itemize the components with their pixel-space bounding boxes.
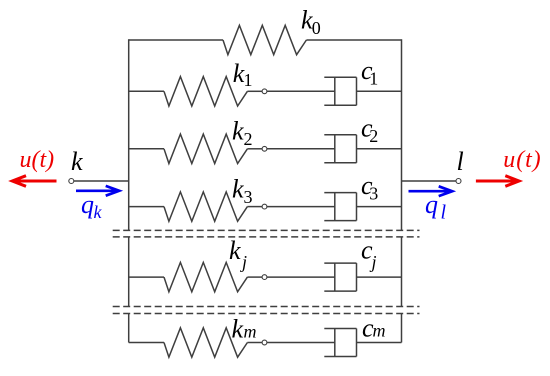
- spring k0: [223, 25, 306, 54]
- node l terminal wire: [402, 180, 457, 182]
- svg-text:k: k: [232, 175, 244, 204]
- svg-text:2: 2: [244, 129, 253, 149]
- wire node to damper 1: [267, 90, 335, 92]
- svg-text:q: q: [81, 190, 94, 219]
- wire right bus middle segment: [401, 237, 403, 307]
- arrow u(t) right: [476, 176, 519, 187]
- svg-text:m: m: [373, 321, 386, 341]
- wire branch 2 left: [129, 148, 164, 150]
- arrow ql: [409, 186, 453, 196]
- wire top branch left: [129, 39, 223, 41]
- svg-text:3: 3: [369, 184, 378, 204]
- wire branch 1 left: [129, 90, 164, 92]
- wire node to damper j: [267, 276, 335, 278]
- svg-text:j: j: [370, 252, 377, 272]
- svg-text:3: 3: [244, 187, 253, 207]
- ellipsis dashed line 2: [113, 236, 420, 238]
- wire spring to node j: [247, 276, 262, 278]
- wire spring to node 2: [247, 148, 262, 150]
- node joint 1: [262, 89, 267, 94]
- wire branch 3 left: [129, 206, 164, 208]
- svg-text:k: k: [232, 314, 244, 343]
- damper c3: [324, 193, 356, 221]
- node joint 3: [262, 204, 267, 209]
- wire damper to bus m: [357, 342, 402, 344]
- node joint j: [262, 275, 267, 280]
- svg-text:u(t): u(t): [20, 147, 55, 173]
- arrow qk: [76, 186, 119, 196]
- svg-text:k: k: [232, 117, 244, 146]
- svg-text:1: 1: [244, 70, 253, 90]
- spring k2: [164, 134, 247, 163]
- svg-text:k: k: [71, 147, 83, 176]
- node k circle: [69, 179, 74, 184]
- wire spring to node 1: [247, 90, 262, 92]
- node l circle: [456, 179, 461, 184]
- svg-text:1: 1: [369, 68, 378, 88]
- spring k1: [164, 77, 247, 106]
- spring k3: [164, 192, 247, 221]
- svg-text:j: j: [240, 252, 247, 272]
- svg-text:l: l: [457, 147, 464, 176]
- node k terminal wire: [74, 180, 129, 182]
- damper cj: [324, 263, 356, 291]
- svg-text:q: q: [425, 190, 438, 219]
- ellipsis dashed line 4: [113, 313, 420, 315]
- svg-text:0: 0: [312, 18, 321, 38]
- wire right bus upper segment: [401, 39, 403, 230]
- damper cm: [324, 329, 356, 357]
- node joint 2: [262, 146, 267, 151]
- wire damper to bus 2: [357, 148, 402, 150]
- wire top branch right: [306, 39, 401, 41]
- node joint m: [262, 340, 267, 345]
- wire spring to node m: [247, 342, 262, 344]
- wire left bus upper segment: [128, 39, 130, 230]
- wire damper to bus j: [357, 276, 402, 278]
- svg-text:k: k: [229, 236, 241, 265]
- wire right bus lower segment: [401, 314, 403, 343]
- wire left bus middle segment: [128, 237, 130, 307]
- spring km: [164, 328, 247, 357]
- svg-text:2: 2: [369, 126, 378, 146]
- wire branch j left: [129, 276, 164, 278]
- wire node to damper 3: [267, 206, 335, 208]
- wire damper to bus 3: [357, 206, 402, 208]
- spring kj: [164, 262, 247, 291]
- wire damper to bus 1: [357, 90, 402, 92]
- svg-text:k: k: [94, 202, 103, 222]
- wire spring to node 3: [247, 206, 262, 208]
- wire branch m left: [129, 342, 164, 344]
- wire node to damper 2: [267, 148, 335, 150]
- damper c1: [324, 77, 356, 105]
- ellipsis dashed line 3: [113, 306, 420, 308]
- svg-text:m: m: [244, 321, 257, 341]
- svg-text:u(t): u(t): [503, 147, 541, 173]
- svg-text:l: l: [441, 202, 447, 224]
- wire left bus lower segment: [128, 314, 130, 343]
- wire node to damper m: [267, 342, 335, 344]
- ellipsis dashed line 1: [113, 229, 420, 231]
- damper c2: [324, 135, 356, 163]
- arrow u(t) left: [12, 176, 56, 187]
